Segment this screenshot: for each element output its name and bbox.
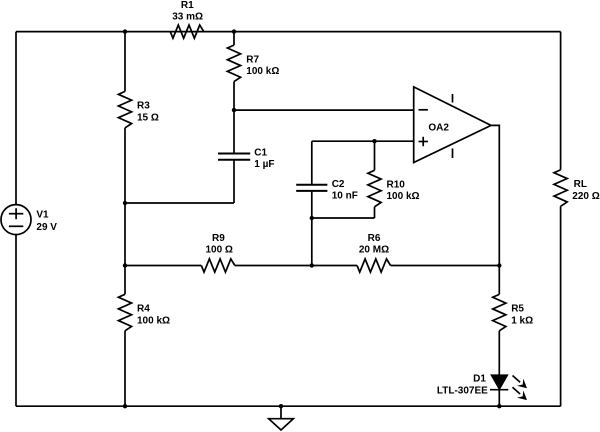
svg-text:220 Ω: 220 Ω	[572, 191, 599, 202]
svg-text:R5: R5	[511, 304, 524, 315]
svg-text:100 kΩ: 100 kΩ	[387, 191, 420, 202]
svg-text:100 kΩ: 100 kΩ	[137, 315, 170, 326]
svg-text:1 kΩ: 1 kΩ	[511, 315, 533, 326]
svg-text:D1: D1	[473, 374, 486, 385]
svg-text:R1: R1	[181, 0, 194, 11]
svg-text:V1: V1	[36, 209, 49, 220]
svg-text:R6: R6	[368, 233, 381, 244]
svg-text:20 MΩ: 20 MΩ	[359, 245, 389, 256]
svg-text:R9: R9	[212, 233, 225, 244]
svg-text:29 V: 29 V	[36, 222, 57, 233]
svg-text:R4: R4	[137, 304, 150, 315]
svg-text:15 Ω: 15 Ω	[137, 113, 159, 124]
svg-text:C2: C2	[332, 179, 345, 190]
svg-text:LTL-307EE: LTL-307EE	[437, 386, 488, 397]
svg-text:R7: R7	[246, 54, 259, 65]
svg-text:1 µF: 1 µF	[254, 159, 274, 170]
svg-text:RL: RL	[574, 179, 587, 190]
svg-text:C1: C1	[254, 147, 267, 158]
svg-text:100 kΩ: 100 kΩ	[246, 66, 279, 77]
svg-text:10 nF: 10 nF	[332, 190, 358, 201]
svg-text:100 Ω: 100 Ω	[205, 245, 232, 256]
svg-text:33 mΩ: 33 mΩ	[172, 12, 203, 23]
svg-text:R3: R3	[137, 101, 150, 112]
svg-text:OA2: OA2	[428, 123, 449, 134]
svg-text:R10: R10	[387, 180, 406, 191]
